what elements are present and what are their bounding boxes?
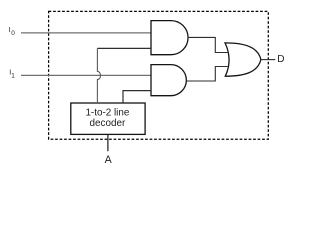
wire AND1 output to OR input 1	[188, 37, 228, 52]
svg-text:1: 1	[11, 72, 15, 79]
decoder box	[71, 103, 145, 134]
svg-text:D: D	[277, 54, 284, 65]
wire I1 to AND gate 2	[21, 74, 151, 76]
wire OR output to D	[261, 59, 275, 61]
svg-text:decoder: decoder	[90, 118, 126, 129]
AND gate 2 (bottom)	[151, 65, 186, 96]
dashed multiplexer boundary	[49, 11, 269, 139]
wire decoder output 1 to AND2	[123, 91, 151, 103]
AND gate 1 (top)	[151, 21, 188, 55]
wire I0 to AND gate 1	[21, 32, 151, 34]
OR gate	[225, 43, 261, 76]
input label I1	[9, 70, 15, 80]
svg-text:1-to-2 line: 1-to-2 line	[85, 108, 129, 119]
wire select input A	[107, 134, 109, 151]
svg-text:0: 0	[11, 30, 15, 37]
wire decoder output 0 horizontal to AND1	[97, 47, 151, 49]
wire AND2 output to OR input 2	[186, 67, 227, 82]
input label I0	[9, 27, 16, 37]
wire decoder output 0 vertical (with hop over I1)	[97, 48, 100, 103]
svg-text:A: A	[105, 154, 113, 166]
